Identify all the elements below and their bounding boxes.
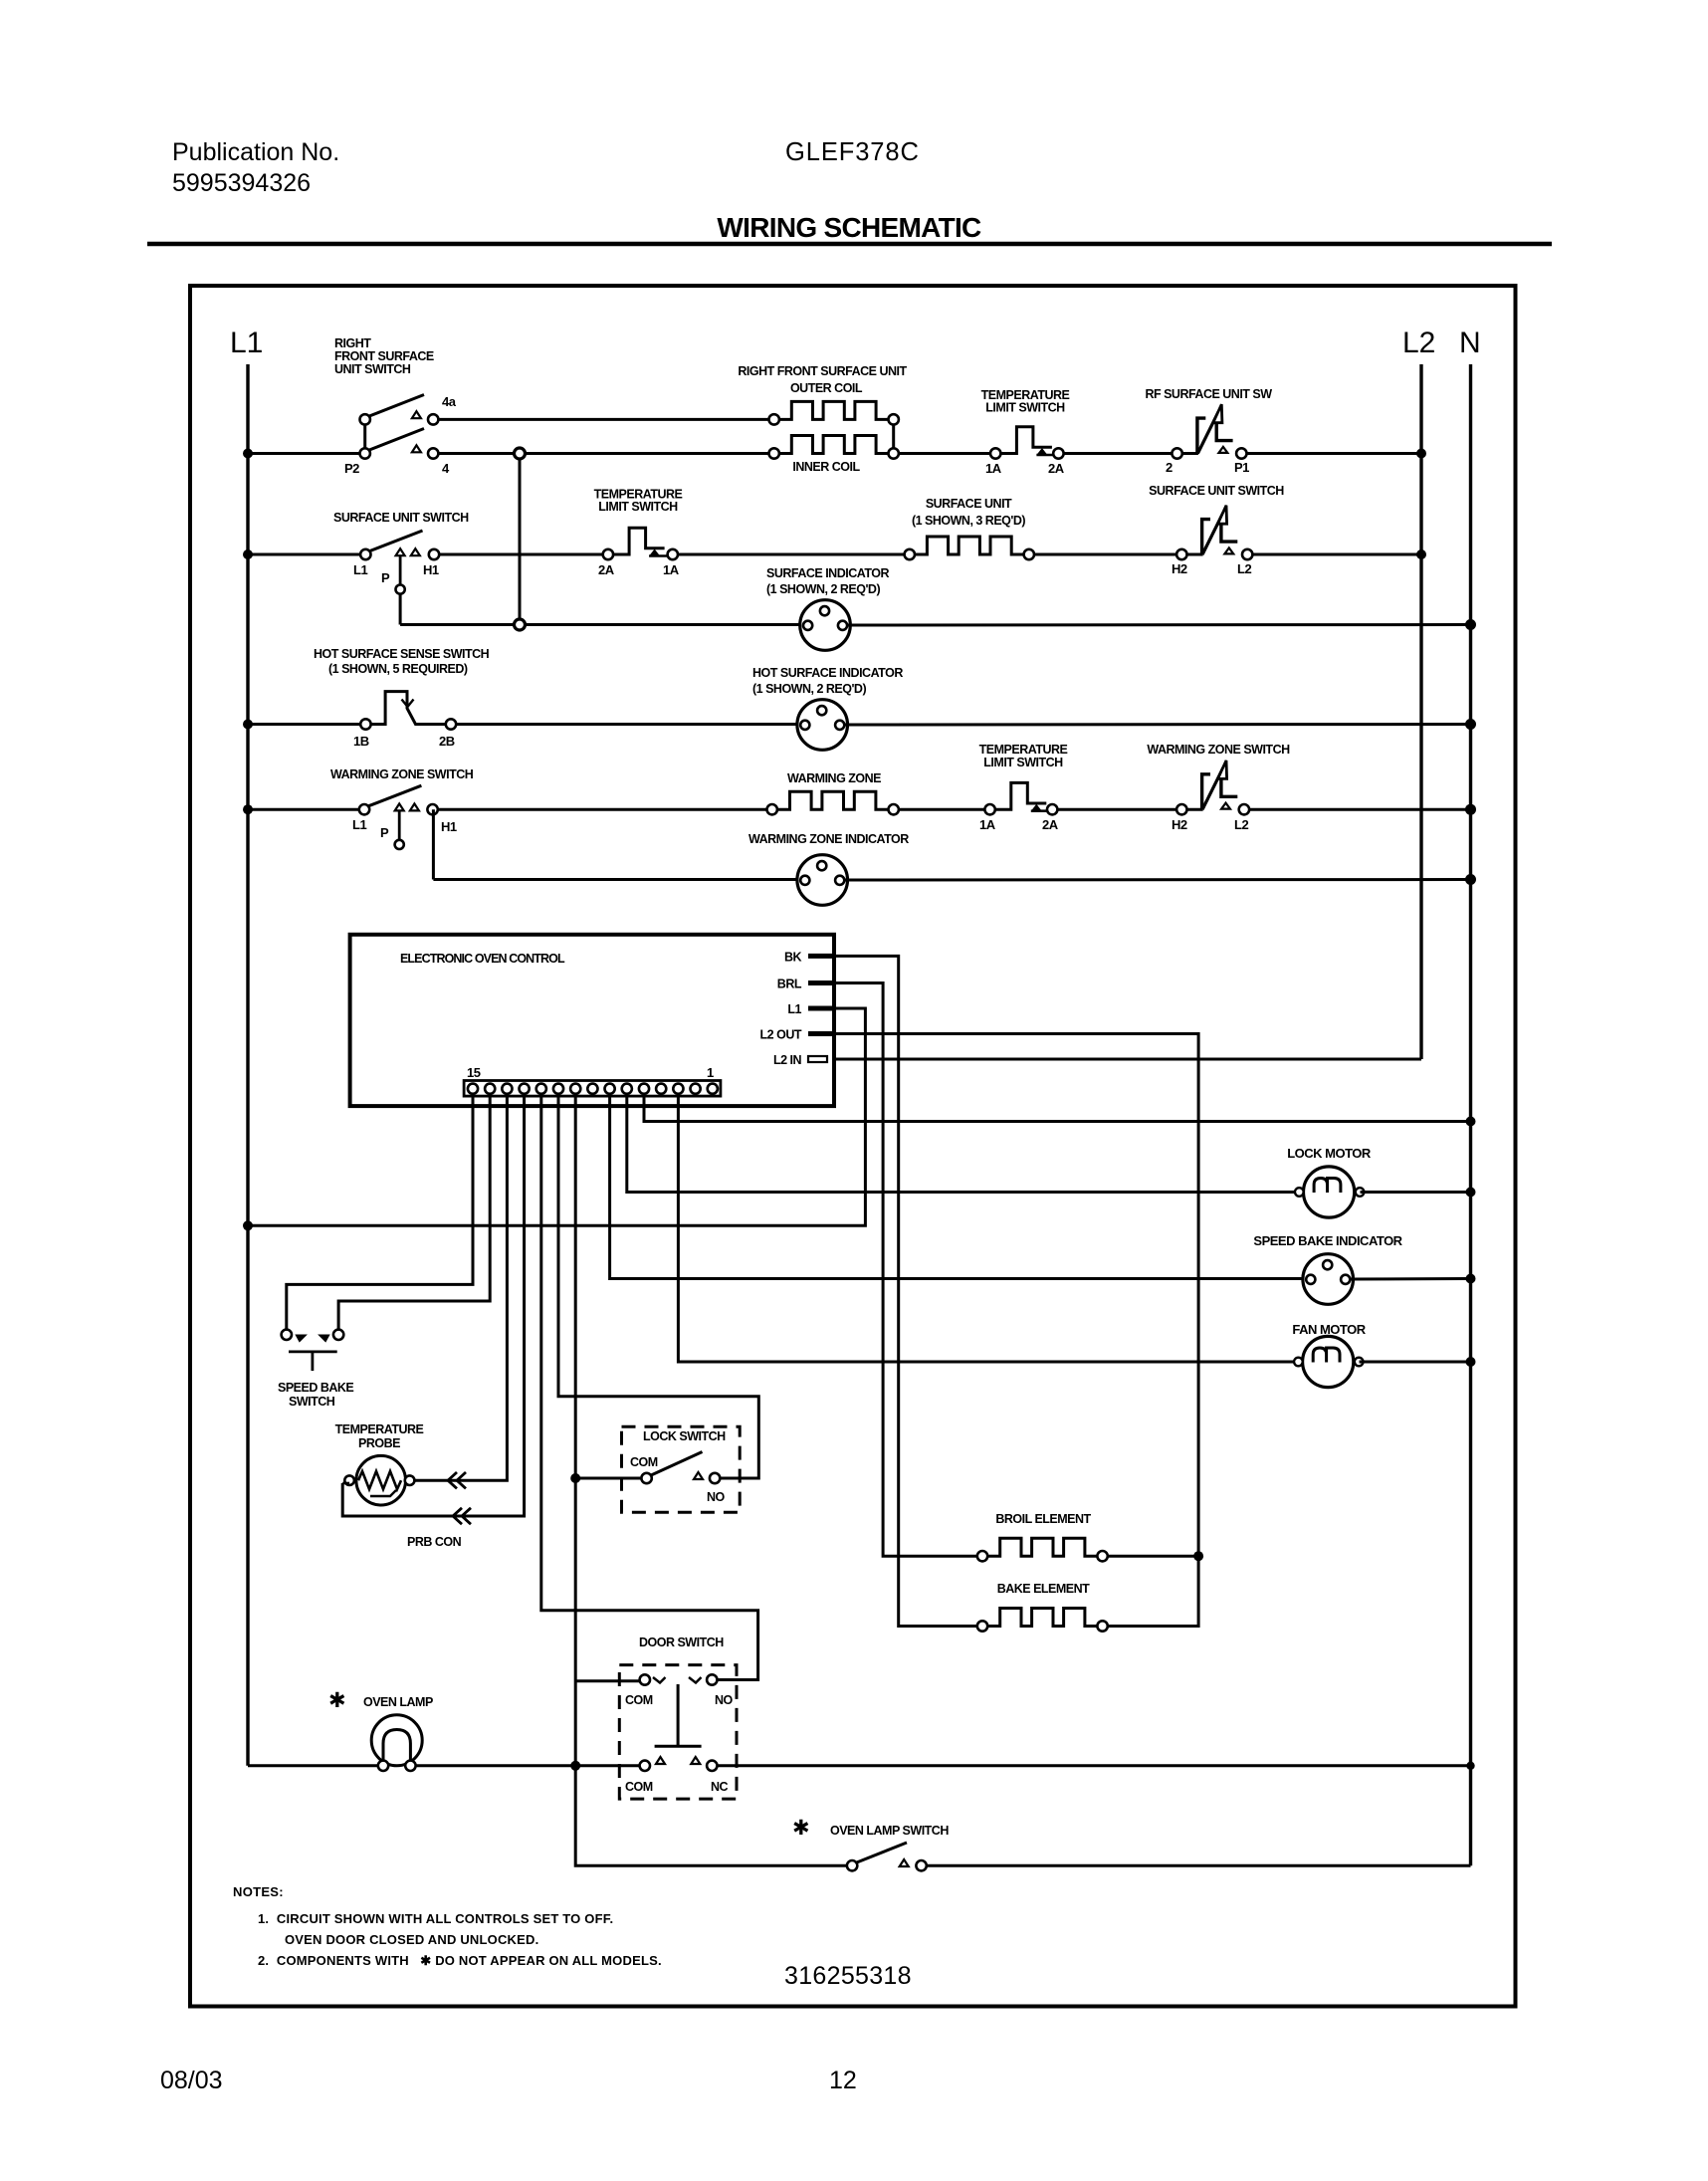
wire warming zone to limit switch xyxy=(899,808,985,811)
wire H1 to temperature limit switch xyxy=(439,553,603,556)
svg-text:H2: H2 xyxy=(1172,817,1187,832)
wire speed bake indicator to N xyxy=(1351,1277,1471,1281)
terminal 1B xyxy=(360,719,370,729)
svg-text:(1 SHOWN, 2 REQ'D): (1 SHOWN, 2 REQ'D) xyxy=(766,582,880,596)
svg-text:RIGHT: RIGHT xyxy=(334,336,371,350)
terminal 4 xyxy=(428,448,438,458)
terminal lamp right xyxy=(405,1761,415,1771)
indicator lamp surface indicator xyxy=(800,600,851,651)
svg-text:OVEN LAMP SWITCH: OVEN LAMP SWITCH xyxy=(830,1824,949,1838)
wire coils to temperature limit switch xyxy=(899,452,990,455)
svg-text:12: 12 xyxy=(829,2067,857,2094)
svg-text:NOTES:: NOTES: xyxy=(233,1884,284,1899)
svg-text:1A: 1A xyxy=(663,562,680,577)
svg-text:✱: ✱ xyxy=(328,1689,346,1712)
svg-text:PROBE: PROBE xyxy=(358,1436,400,1450)
terminal pins 15 to 1 of U1 xyxy=(468,1084,718,1094)
terminal NO upper xyxy=(707,1674,717,1684)
junction L1 row1 xyxy=(243,449,253,459)
switch blade upper xyxy=(367,395,425,418)
terminal H1 xyxy=(429,549,439,559)
svg-text:FRONT SURFACE: FRONT SURFACE xyxy=(334,349,434,363)
terminal warming zone left xyxy=(767,804,777,814)
junction node indicator tap xyxy=(515,619,526,630)
svg-text:15: 15 xyxy=(467,1065,481,1080)
contact arrow xyxy=(900,1859,909,1866)
svg-text:FAN MOTOR: FAN MOTOR xyxy=(1292,1322,1366,1337)
switch blade xyxy=(367,531,423,552)
surface unit switch right xyxy=(1176,506,1252,560)
indicator lamp hot surface indicator xyxy=(797,700,848,751)
svg-text:2B: 2B xyxy=(439,734,455,749)
wire lock motor to N xyxy=(1361,1191,1471,1194)
wire joining coil right ends xyxy=(892,424,895,449)
wire L2 OUT to elements xyxy=(834,1034,1198,1557)
wire BK to bake element xyxy=(834,956,977,1626)
terminal COM xyxy=(641,1473,651,1483)
schematic border frame xyxy=(190,286,1516,2007)
wire L1 out to L1 bus xyxy=(248,1008,865,1225)
wire L1 bus to oven lamp xyxy=(248,1764,378,1767)
contact arrow H1 xyxy=(410,803,419,810)
switch S7 door switch upper contacts xyxy=(640,1674,718,1684)
svg-text:2: 2 xyxy=(1166,460,1173,475)
RF surface unit switch xyxy=(1172,404,1246,458)
svg-text:316255318: 316255318 xyxy=(784,1962,912,1990)
wire L2 IN to L2 bus xyxy=(834,1058,1421,1061)
junction broil L2 OUT xyxy=(1193,1551,1203,1561)
wire limit switch to RF surface unit switch xyxy=(1064,452,1173,455)
svg-text:LOCK SWITCH: LOCK SWITCH xyxy=(643,1429,726,1443)
terminal left xyxy=(282,1330,292,1340)
svg-text:INNER COIL: INNER COIL xyxy=(792,460,860,474)
wire lamp switch to N bus xyxy=(927,1864,1471,1867)
junction row1 L2 xyxy=(1416,449,1426,459)
svg-text:BRL: BRL xyxy=(777,978,802,991)
heating element inner coil xyxy=(779,436,889,454)
actuator stem xyxy=(311,1352,314,1371)
wire pin12 to probe common xyxy=(342,1093,524,1516)
svg-text:WARMING ZONE: WARMING ZONE xyxy=(787,771,881,785)
wire 2B to hot surface indicator xyxy=(456,723,799,726)
svg-text:BAKE ELEMENT: BAKE ELEMENT xyxy=(997,1582,1090,1596)
wire surface unit to switch H2 xyxy=(1034,553,1176,556)
svg-text:WARMING ZONE SWITCH: WARMING ZONE SWITCH xyxy=(1147,743,1290,757)
svg-text:08/03: 08/03 xyxy=(160,2067,223,2094)
terminal broil left xyxy=(977,1551,987,1561)
svg-text:N: N xyxy=(1459,327,1481,359)
wire warming indicator to N bus xyxy=(845,878,1471,882)
switch S6 lock switch contacts xyxy=(641,1452,720,1484)
wire to L2 bus row2 xyxy=(1252,553,1421,556)
svg-text:OUTER COIL: OUTER COIL xyxy=(790,381,863,395)
svg-text:L2: L2 xyxy=(1402,327,1435,359)
junction row2 L2 xyxy=(1416,549,1426,559)
svg-text:SURFACE INDICATOR: SURFACE INDICATOR xyxy=(766,566,889,580)
wire surface indicator to N bus xyxy=(848,623,1471,627)
junction warming row N xyxy=(1465,804,1476,815)
svg-text:COM: COM xyxy=(625,1780,653,1794)
svg-text:HOT SURFACE SENSE SWITCH: HOT SURFACE SENSE SWITCH xyxy=(314,647,490,661)
wire warming indicator row xyxy=(433,878,799,881)
terminal NC xyxy=(707,1761,717,1771)
terminal 2B xyxy=(446,719,456,729)
svg-text:SPEED BAKE: SPEED BAKE xyxy=(278,1381,353,1395)
switch blade lower xyxy=(367,429,425,452)
stub L2 IN xyxy=(808,1056,827,1062)
contact arrow xyxy=(694,1472,703,1479)
stub BK xyxy=(808,954,834,959)
terminal upper pole xyxy=(360,414,370,424)
switch S4 warming zone switch xyxy=(359,785,438,849)
svg-text:NO: NO xyxy=(707,1490,726,1504)
title underline rule xyxy=(147,242,1552,247)
wire pin5 to N bus xyxy=(644,1093,1471,1122)
svg-text:NO: NO xyxy=(715,1693,734,1707)
svg-text:2. COMPONENTS WITH ✱ DO NOT: 2. COMPONENTS WITH ✱ DO NOT APPEAR ON AL… xyxy=(258,1953,662,1968)
wire pin7 to speed bake indicator xyxy=(610,1093,1303,1279)
terminal outer coil left xyxy=(769,414,779,424)
svg-text:L2 IN: L2 IN xyxy=(773,1053,802,1067)
svg-text:RIGHT FRONT SURFACE UNIT: RIGHT FRONT SURFACE UNIT xyxy=(738,364,907,378)
svg-text:L2: L2 xyxy=(1234,817,1248,832)
svg-text:2A: 2A xyxy=(598,562,615,577)
switch S5 speed bake switch xyxy=(282,1330,344,1371)
terminal warming zone right xyxy=(889,804,899,814)
switch S7 door switch lower contacts xyxy=(640,1757,718,1771)
indicator lamp warming zone indicator xyxy=(797,855,848,906)
junction pin9 lock COM xyxy=(570,1473,580,1483)
svg-text:COM: COM xyxy=(625,1693,653,1707)
svg-text:OVEN LAMP: OVEN LAMP xyxy=(363,1695,433,1709)
svg-text:P: P xyxy=(380,825,389,840)
switch blade xyxy=(856,1843,908,1863)
wire pin6 to lock motor xyxy=(627,1093,1299,1193)
svg-text:(1 SHOWN, 3 REQ'D): (1 SHOWN, 3 REQ'D) xyxy=(912,514,1025,528)
svg-text:RF SURFACE UNIT SW: RF SURFACE UNIT SW xyxy=(1145,387,1272,401)
heating element broil xyxy=(987,1538,1098,1556)
terminal P xyxy=(396,585,405,594)
svg-text:(1 SHOWN, 5 REQUIRED): (1 SHOWN, 5 REQUIRED) xyxy=(328,662,468,676)
wire to N bus row5 xyxy=(1249,808,1470,811)
wire limit switch to warming zone switch xyxy=(1057,808,1176,811)
wire L1 to warming zone switch xyxy=(248,808,359,811)
svg-text:DOOR SWITCH: DOOR SWITCH xyxy=(639,1636,724,1649)
wire 4a to outer coil xyxy=(438,418,768,421)
terminal right xyxy=(916,1860,926,1870)
wire bake to L2 OUT xyxy=(1108,1556,1198,1626)
switch blade xyxy=(650,1452,703,1476)
svg-text:H1: H1 xyxy=(441,819,457,834)
terminal right xyxy=(333,1330,343,1340)
wire H1 drop to warming indicator row xyxy=(432,809,435,879)
svg-text:1: 1 xyxy=(707,1065,714,1080)
svg-text:2A: 2A xyxy=(1048,461,1065,476)
svg-text:TEMPERATURE: TEMPERATURE xyxy=(335,1422,424,1436)
svg-text:1A: 1A xyxy=(985,461,1002,476)
terminal inner coil right xyxy=(889,448,899,458)
wire pin13 to probe xyxy=(414,1093,507,1480)
motor M2 fan motor xyxy=(1294,1336,1363,1387)
wire hot surface indicator to N bus xyxy=(845,723,1471,727)
svg-text:UNIT SWITCH: UNIT SWITCH xyxy=(334,362,411,376)
svg-text:GLEF378C: GLEF378C xyxy=(785,138,920,166)
stub L2 OUT xyxy=(808,1031,834,1036)
svg-text:L1: L1 xyxy=(787,1002,801,1016)
junction NC row N xyxy=(1466,1762,1474,1770)
wire P stem xyxy=(398,810,401,839)
wire P stem xyxy=(399,555,402,584)
svg-text:HOT SURFACE INDICATOR: HOT SURFACE INDICATOR xyxy=(752,666,903,680)
warming zone switch right xyxy=(1176,761,1249,815)
junction L1 row5 xyxy=(243,804,253,814)
wire lamp to door switch COM xyxy=(416,1764,640,1767)
heating element bake xyxy=(987,1609,1098,1627)
svg-text:SPEED BAKE INDICATOR: SPEED BAKE INDICATOR xyxy=(1253,1233,1402,1248)
svg-text:P2: P2 xyxy=(344,461,359,476)
wire limit switch to surface unit element xyxy=(678,553,905,556)
stub BRL xyxy=(808,981,834,985)
wire probe left lead xyxy=(342,1482,349,1485)
contact arrow left xyxy=(656,1757,665,1764)
junction indicator row N xyxy=(1465,619,1476,630)
terminal COM lower xyxy=(640,1761,650,1771)
svg-text:NC: NC xyxy=(711,1780,729,1794)
svg-text:BK: BK xyxy=(784,951,802,965)
svg-text:(1 SHOWN, 2 REQ'D): (1 SHOWN, 2 REQ'D) xyxy=(752,682,866,696)
terminal L1 pole xyxy=(360,549,370,559)
electronic oven control U1 box xyxy=(350,935,834,1106)
terminal H1 xyxy=(427,804,437,814)
terminal probe left xyxy=(344,1475,354,1485)
svg-text:LOCK MOTOR: LOCK MOTOR xyxy=(1287,1146,1372,1161)
svg-text:OVEN DOOR CLOSED AND UNLOCKED.: OVEN DOOR CLOSED AND UNLOCKED. xyxy=(285,1932,538,1947)
junction L1 bus EOC feed xyxy=(243,1220,253,1230)
terminal surface unit left xyxy=(905,549,915,559)
wire pin14 to speed bake switch right xyxy=(338,1093,490,1330)
svg-text:PRB CON: PRB CON xyxy=(407,1535,462,1549)
stub L1 xyxy=(808,1006,834,1011)
svg-text:L1: L1 xyxy=(230,327,263,359)
junction L1 row2 xyxy=(243,549,253,559)
temperature limit switch row2 xyxy=(603,528,678,559)
svg-text:SURFACE UNIT: SURFACE UNIT xyxy=(926,497,1012,511)
terminal strip of U1 xyxy=(464,1081,721,1097)
terminal surface unit right xyxy=(1024,549,1034,559)
wire fan motor to N xyxy=(1360,1361,1471,1364)
svg-text:TEMPERATURE: TEMPERATURE xyxy=(979,743,1068,757)
svg-text:H1: H1 xyxy=(423,562,439,577)
contact arrow P xyxy=(396,548,405,555)
switch blade xyxy=(366,785,422,807)
contact arrow right xyxy=(691,1757,700,1764)
terminal COM upper xyxy=(640,1674,650,1684)
temperature limit switch row1 xyxy=(990,427,1064,459)
wire broil to L2 OUT xyxy=(1108,1555,1198,1558)
contact arrow 4 xyxy=(412,445,421,452)
svg-text:Publication No.: Publication No. xyxy=(172,138,339,166)
svg-text:ELECTRONIC OVEN CONTROL: ELECTRONIC OVEN CONTROL xyxy=(400,952,565,966)
junction hot surface row N xyxy=(1465,719,1476,730)
wire pin15 to speed bake switch left xyxy=(287,1093,473,1330)
svg-text:BROIL ELEMENT: BROIL ELEMENT xyxy=(995,1512,1091,1526)
motor M1 lock motor xyxy=(1295,1167,1364,1217)
terminal outer coil right xyxy=(889,414,899,424)
junction speed bake N xyxy=(1466,1274,1476,1284)
terminal broil right xyxy=(1097,1551,1107,1561)
wire L1 to 1B xyxy=(248,723,360,726)
switch S1 right front surface unit switch xyxy=(360,395,439,459)
junction warming indicator N xyxy=(1465,874,1476,885)
switch S2 surface unit switch xyxy=(360,531,439,594)
terminal bake right xyxy=(1097,1621,1107,1631)
thermistor RT1 temperature probe xyxy=(344,1455,414,1505)
svg-text:SURFACE UNIT SWITCH: SURFACE UNIT SWITCH xyxy=(333,511,469,525)
terminal bake left xyxy=(977,1621,987,1631)
wire pin9 common feed xyxy=(575,1093,847,1865)
wire L1 to surface unit switch xyxy=(248,553,360,556)
svg-text:H2: H2 xyxy=(1172,561,1187,576)
terminal NO xyxy=(710,1473,720,1483)
connector chevrons probe signal xyxy=(448,1472,466,1488)
wire N bus vertical xyxy=(1469,364,1472,1865)
wire pin9 branch to lock switch COM xyxy=(575,1477,641,1480)
terminal lamp left xyxy=(378,1761,388,1771)
indicator lamp speed bake xyxy=(1303,1254,1354,1305)
svg-text:L2 OUT: L2 OUT xyxy=(760,1028,802,1042)
junction fan motor N xyxy=(1466,1357,1476,1367)
wire 4 to inner coil xyxy=(438,452,768,455)
svg-text:4a: 4a xyxy=(442,394,457,409)
contact hook left xyxy=(653,1677,666,1683)
terminal 4a xyxy=(428,414,438,424)
svg-text:LIMIT SWITCH: LIMIT SWITCH xyxy=(985,401,1065,415)
contact arrow 4a xyxy=(412,411,421,418)
svg-text:1. CIRCUIT SHOWN WITH ALL CON: 1. CIRCUIT SHOWN WITH ALL CONTROLS SET T… xyxy=(258,1911,613,1926)
switch S8 oven lamp switch xyxy=(847,1843,927,1870)
connector chevrons probe common xyxy=(453,1508,471,1524)
svg-text:✱: ✱ xyxy=(792,1817,810,1840)
junction L1 row4 xyxy=(243,720,253,730)
contact arrow P xyxy=(395,803,404,810)
svg-text:P: P xyxy=(381,570,390,585)
wire L2 bus vertical xyxy=(1419,364,1422,1059)
terminal left xyxy=(847,1860,857,1870)
svg-text:WARMING ZONE INDICATOR: WARMING ZONE INDICATOR xyxy=(748,832,909,846)
door switch S7 dashed enclosure xyxy=(619,1665,737,1800)
wire door NC to N bus xyxy=(718,1764,1471,1767)
wire P1 to L2 bus xyxy=(1247,452,1422,455)
terminal probe right xyxy=(405,1475,415,1485)
junction pin9 oven lamp row xyxy=(570,1761,580,1771)
svg-text:2A: 2A xyxy=(1042,817,1059,832)
wire H1 to warming zone element xyxy=(438,808,767,811)
svg-text:L1: L1 xyxy=(352,817,366,832)
wire BRL to broil element xyxy=(834,983,977,1557)
wire indicator row left segment xyxy=(400,623,802,626)
temperature limit switch row5 xyxy=(984,782,1057,814)
heating element outer coil xyxy=(779,401,889,419)
wire L1 to switch P2 xyxy=(248,452,360,455)
lamp DS1 oven lamp xyxy=(371,1715,422,1771)
heating element surface unit xyxy=(915,537,1024,554)
wire pin11 to door switch NO xyxy=(541,1093,758,1680)
svg-text:WIRING SCHEMATIC: WIRING SCHEMATIC xyxy=(717,212,981,243)
junction pin5 N xyxy=(1466,1117,1476,1127)
svg-text:L2: L2 xyxy=(1237,561,1251,576)
svg-text:COM: COM xyxy=(630,1455,658,1469)
heating element warming zone xyxy=(777,791,889,809)
wire pin9 branch to door switch COM xyxy=(575,1679,639,1682)
svg-text:1B: 1B xyxy=(353,734,369,749)
svg-text:5995394326: 5995394326 xyxy=(172,169,311,197)
switch S3 hot surface sense switch xyxy=(360,692,456,730)
svg-text:LIMIT SWITCH: LIMIT SWITCH xyxy=(983,756,1063,769)
wire L1 bus vertical xyxy=(246,364,249,1766)
svg-text:P1: P1 xyxy=(1234,460,1249,475)
svg-text:LIMIT SWITCH: LIMIT SWITCH xyxy=(598,500,678,514)
svg-text:SWITCH: SWITCH xyxy=(289,1395,335,1409)
contact arrow H1 xyxy=(411,548,420,555)
terminal L1 pole xyxy=(359,804,369,814)
svg-text:SURFACE UNIT SWITCH: SURFACE UNIT SWITCH xyxy=(1149,484,1284,498)
filament loop xyxy=(383,1730,410,1763)
contact hook right xyxy=(689,1677,702,1683)
door switch actuator link xyxy=(677,1684,680,1746)
actuator bar xyxy=(289,1351,337,1354)
wire P down to indicator row xyxy=(399,594,402,625)
wire row1 tap down to indicator row xyxy=(519,459,522,619)
svg-text:1A: 1A xyxy=(979,817,996,832)
wire pin3 to fan motor xyxy=(678,1093,1302,1362)
terminal P2 xyxy=(360,448,370,458)
svg-text:WARMING ZONE SWITCH: WARMING ZONE SWITCH xyxy=(330,767,474,781)
terminal P xyxy=(395,840,404,849)
lock switch S6 dashed enclosure xyxy=(622,1426,741,1512)
junction node row1 tap xyxy=(515,448,526,459)
terminal inner coil left xyxy=(769,448,779,458)
wire pin10 to lock switch NO xyxy=(558,1093,758,1478)
junction lock motor N xyxy=(1466,1188,1476,1198)
svg-text:L1: L1 xyxy=(353,562,367,577)
